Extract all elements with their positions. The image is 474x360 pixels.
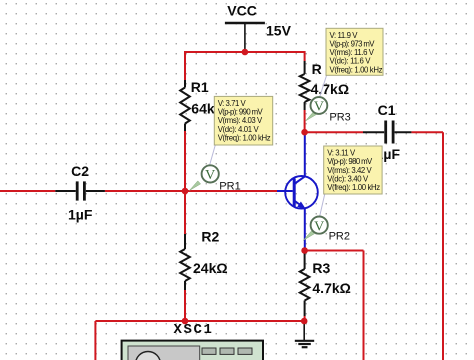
- svg-text:V: V: [314, 219, 324, 234]
- svg-text:1µF: 1µF: [68, 206, 93, 222]
- svg-text:V: V: [205, 168, 215, 183]
- svg-text:V: V: [314, 100, 324, 115]
- svg-text:R3: R3: [312, 260, 330, 276]
- svg-text:R2: R2: [201, 229, 219, 245]
- svg-text:VCC: VCC: [227, 2, 257, 18]
- svg-text:4.7kΩ: 4.7kΩ: [312, 280, 350, 296]
- svg-text:R: R: [312, 61, 322, 77]
- svg-text:15V: 15V: [266, 23, 292, 39]
- svg-text:V(freq): 1.00 kHz: V(freq): 1.00 kHz: [330, 65, 383, 74]
- svg-text:PR3: PR3: [329, 112, 350, 124]
- svg-text:C1: C1: [378, 102, 396, 118]
- svg-text:4.7kΩ: 4.7kΩ: [311, 81, 349, 97]
- svg-text:V(freq): 1.00 kHz: V(freq): 1.00 kHz: [218, 133, 271, 142]
- svg-text:24kΩ: 24kΩ: [193, 260, 228, 276]
- svg-text:PR1: PR1: [219, 181, 240, 193]
- svg-text:R1: R1: [191, 79, 209, 95]
- svg-text:PR2: PR2: [329, 231, 350, 243]
- svg-text:XSC1: XSC1: [174, 322, 214, 338]
- svg-text:V(freq): 1.00 kHz: V(freq): 1.00 kHz: [327, 183, 380, 192]
- svg-text:C2: C2: [71, 163, 89, 179]
